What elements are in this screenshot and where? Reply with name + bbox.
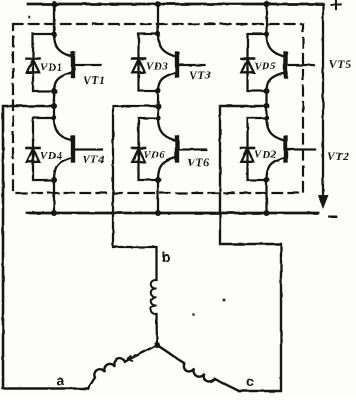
svg-text:VT1: VT1 — [83, 75, 106, 87]
diode VD6 — [132, 148, 145, 162]
wire: leg2 bottom segment — [157, 180, 159, 213]
svg-text:VD3: VD3 — [146, 61, 169, 73]
svg-text:a: a — [56, 372, 65, 388]
diode VD5 — [241, 59, 254, 73]
wire: VD2 loop — [248, 118, 267, 180]
wire: VD3 loop — [139, 34, 159, 91]
wire: leg2 mid segment — [157, 91, 159, 118]
svg-text:VD2: VD2 — [254, 149, 277, 161]
transistor VT3 — [158, 34, 205, 91]
dashed converter boundary box — [13, 24, 303, 193]
inductor Lb winding — [151, 280, 157, 314]
wire: leg1 rail top segment — [53, 4, 55, 34]
wire: leg1 mid segment — [53, 91, 55, 118]
svg-text:VD1: VD1 — [40, 62, 63, 74]
svg-text:VD4: VD4 — [40, 150, 63, 162]
wire: leg2 rail top segment — [157, 4, 159, 34]
wire: phase a to star — [125, 345, 157, 362]
wire: phase b tap — [113, 106, 158, 280]
wire: VD4 loop — [33, 118, 54, 180]
svg-text:VT4: VT4 — [82, 154, 105, 166]
diode VD1 — [27, 59, 40, 73]
svg-text:VT6: VT6 — [187, 157, 210, 169]
svg-text:c: c — [246, 373, 255, 389]
wire: phase c tap — [220, 106, 281, 391]
wire: right DC link line — [322, 4, 324, 198]
svg-text:VT5: VT5 — [329, 59, 352, 71]
inductor Lc winding — [157, 345, 239, 391]
node: star point — [154, 342, 160, 348]
transistor VT6 — [158, 118, 206, 180]
wire: phase b to star — [155, 314, 158, 345]
svg-text:VT3: VT3 — [189, 70, 212, 82]
inductor La winding — [88, 359, 125, 389]
wire: leg3 rail top segment — [265, 4, 267, 34]
node: plus terminal — [331, 0, 341, 9]
transistor VT2 — [267, 118, 316, 180]
wire: VD5 loop — [248, 34, 267, 91]
transistor VT1 — [54, 34, 101, 91]
wire: leg3 bottom segment — [265, 180, 267, 213]
wire: leg3 mid segment — [265, 91, 267, 118]
svg-text:VD6: VD6 — [143, 149, 166, 161]
wire: bottom DC bus — [27, 212, 318, 215]
svg-text:b: b — [162, 249, 171, 265]
svg-text:VT2: VT2 — [327, 151, 350, 163]
wire: VD6 loop — [139, 118, 159, 180]
diode VD4 — [27, 148, 40, 162]
arrowhead of DC link — [318, 195, 329, 209]
transistor VT4 — [54, 118, 102, 180]
wire: leg1 bottom segment — [53, 180, 55, 213]
wire: top DC bus — [28, 3, 323, 6]
diode VD3 — [132, 59, 145, 73]
transistor VT5 — [267, 34, 314, 91]
node: minus terminal — [329, 216, 336, 218]
tick mark on phase a winding — [128, 356, 134, 362]
svg-text:VD5: VD5 — [254, 61, 277, 73]
wire: phase a tap — [3, 106, 88, 389]
wire: VD1 loop — [33, 34, 54, 91]
diode VD2 — [241, 148, 254, 162]
